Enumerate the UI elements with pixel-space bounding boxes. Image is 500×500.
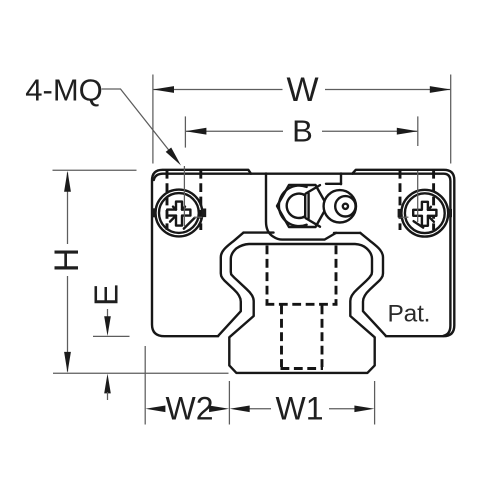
carriage cavity top line left: [244, 231, 274, 233]
left screw side tab left: [152, 208, 156, 217]
rail bolt counterbore bottom hidden line: [266, 303, 338, 306]
dimension W line: [153, 89, 450, 91]
svg-text:E: E: [88, 284, 125, 306]
svg-text:H: H: [48, 248, 86, 273]
left screw side tab right: [202, 209, 206, 218]
grease nipple pocket right edge: [340, 173, 342, 184]
svg-text:Pat.: Pat.: [388, 301, 431, 328]
dimension H bottom arrowhead: [64, 352, 71, 373]
rail outline: [229, 244, 374, 373]
dimension E upper arrowhead: [104, 316, 111, 336]
carriage block outer outline left part: [152, 170, 251, 336]
grease nipple chord edge near: [304, 195, 306, 217]
dimension E lower arrowhead: [104, 374, 111, 394]
grease nipple pocket right shoulder: [326, 183, 341, 185]
grease nipple hex ball seat inner arc: [287, 194, 305, 218]
right screw inner circle: [405, 193, 445, 233]
dimension B right extension line: [417, 116, 419, 146]
dimension B left arrowhead: [185, 128, 206, 135]
dimension H top arrowhead: [64, 171, 71, 192]
dimension H extension line top: [53, 169, 137, 171]
right screw recess tick NE: [428, 207, 431, 210]
dimension B line: [186, 130, 418, 132]
dimension W right extension line: [450, 75, 452, 164]
grease nipple tip hole: [343, 204, 348, 209]
right screw recess tick SE: [428, 216, 434, 222]
grease nipple pocket: [266, 173, 336, 239]
svg-text:W1: W1: [276, 391, 324, 427]
svg-text:W: W: [286, 71, 318, 109]
rail bolt counterbore hidden line right: [335, 246, 338, 305]
left screw recess tick NE: [182, 207, 185, 210]
left screw outer circle: [156, 190, 203, 237]
grease nipple hex ball seat outer arc: [279, 185, 307, 226]
dimension W2 left extension line: [144, 346, 146, 425]
right screw phillips cross: [413, 202, 436, 226]
grease nipple chord edge far: [307, 194, 309, 219]
rail bolt counterbore hidden line left: [266, 246, 269, 305]
right screw slot chord: [414, 221, 424, 227]
carriage cavity left profile: [218, 233, 243, 336]
left screw slot chord: [184, 218, 195, 229]
left screw center tail line: [194, 216, 203, 218]
dimension W1 right arrowhead: [354, 406, 374, 413]
dimension W left arrowhead: [153, 86, 174, 93]
grease nipple tip face circle: [335, 196, 355, 216]
rail bolt through-hole hidden line right: [321, 306, 324, 368]
carriage block outer outline right part: [352, 170, 454, 336]
leader line from 4-MQ: [102, 89, 178, 161]
dimension E upper shaft: [107, 309, 109, 320]
grease nipple neck bottom diagonal: [306, 218, 320, 227]
svg-text:B: B: [292, 114, 313, 149]
leader centerline through left screw: [183, 166, 185, 226]
dimension B left extension line: [184, 116, 186, 147]
carriage top face inner line and right edge inner line: [154, 174, 451, 336]
rail bolt hole bottom chamfer hidden line: [281, 367, 324, 370]
centerline through right screw: [417, 171, 419, 222]
grease nipple tip body circle: [324, 190, 356, 222]
grease nipple hex: [277, 185, 327, 227]
right screw hole hidden line left: [399, 170, 402, 230]
svg-text:4-MQ: 4-MQ: [25, 73, 103, 108]
dimension W left extension line: [152, 75, 154, 164]
left screw phillips cross: [167, 202, 190, 226]
dimension E lower shaft: [107, 392, 109, 400]
dimension W1 right extension line: [374, 381, 376, 425]
carriage cavity right profile: [360, 233, 386, 336]
dimension W right arrowhead: [430, 86, 451, 93]
carriage cavity top line right: [334, 232, 360, 234]
dimension H line: [67, 173, 69, 372]
dimension W2 left arrowhead: [145, 406, 165, 413]
svg-text:W2: W2: [166, 391, 214, 427]
dimension W1 left arrowhead: [230, 406, 250, 413]
dimension W2 right arrowhead: [209, 406, 229, 413]
dimension W1/W2 middle extension line: [228, 381, 230, 425]
right screw center tail line: [398, 216, 408, 218]
right screw side tab right: [448, 209, 452, 217]
baseline extension under rail: [53, 372, 229, 374]
leader arrowhead: [166, 148, 181, 166]
left screw recess tick SW: [170, 216, 176, 222]
left screw inner circle: [159, 193, 199, 233]
dimension E reference line: [93, 335, 130, 337]
rail bolt through-hole hidden line left: [280, 306, 283, 368]
grease nipple neck top diagonal: [306, 185, 320, 194]
dimension B right arrowhead: [397, 128, 418, 135]
right screw side tab left: [398, 209, 402, 218]
left screw hole hidden line right: [199, 170, 202, 230]
left screw recess tick NW: [173, 207, 176, 210]
dimension W1 line: [249, 408, 355, 410]
right screw hole hidden line right: [432, 170, 435, 230]
right screw outer circle: [401, 190, 448, 237]
left screw hole hidden line left: [166, 170, 169, 230]
